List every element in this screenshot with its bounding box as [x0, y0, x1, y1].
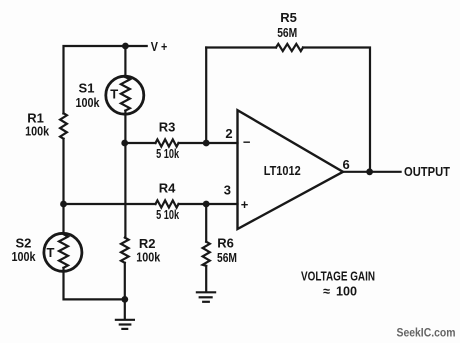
op-amp U1 LT1012 — [238, 110, 344, 229]
svg-text:2: 2 — [225, 126, 232, 141]
wire node B to R4 — [64, 203, 156, 205]
node R5 tap — [203, 140, 210, 147]
svg-text:R4: R4 — [159, 181, 176, 196]
node R6 tap — [203, 201, 210, 208]
node V+ junction — [122, 43, 129, 50]
svg-text:VOLTAGE GAIN: VOLTAGE GAIN — [301, 269, 375, 284]
node B junction — [60, 201, 67, 208]
svg-text:LT1012: LT1012 — [264, 163, 301, 178]
svg-text:R3: R3 — [159, 120, 176, 135]
svg-text:R6: R6 — [217, 236, 234, 251]
resistor R6 — [203, 242, 210, 266]
wire R5 left vertical — [205, 48, 207, 144]
node A junction — [121, 140, 128, 147]
svg-text:100k: 100k — [136, 249, 161, 264]
svg-text:56M: 56M — [217, 250, 237, 265]
svg-text:5 10k: 5 10k — [156, 146, 180, 161]
svg-text:V +: V + — [151, 39, 168, 54]
wire R2 bottom — [124, 263, 126, 300]
wire R6 ground stub — [205, 266, 207, 292]
svg-text:100k: 100k — [25, 124, 50, 139]
svg-text:5 10k: 5 10k — [156, 207, 180, 222]
wire ground stub — [124, 299, 126, 319]
svg-text:≈ 100: ≈ 100 — [323, 283, 357, 298]
resistor R2 — [121, 238, 129, 263]
ground G1 — [116, 320, 134, 329]
wire node A to R3 — [125, 142, 156, 144]
thermistor S2 — [44, 233, 82, 271]
svg-text:6: 6 — [343, 157, 350, 172]
svg-text:R5: R5 — [280, 10, 297, 25]
thermistor S1 — [106, 76, 144, 114]
node output junction — [366, 168, 373, 175]
resistor R3 — [156, 139, 179, 146]
resistor R1 — [60, 113, 67, 139]
svg-text:OUTPUT: OUTPUT — [404, 164, 450, 179]
svg-text:SeekIC.com: SeekIC.com — [397, 326, 456, 340]
svg-text:56M: 56M — [277, 25, 297, 40]
svg-text:100k: 100k — [76, 95, 101, 110]
svg-text:−: − — [243, 135, 251, 150]
svg-text:S1: S1 — [79, 81, 95, 96]
svg-text:3: 3 — [224, 182, 231, 197]
wire R6 top lead — [205, 204, 207, 242]
wire S1 bottom to node A — [124, 111, 126, 143]
wire S1 top lead — [124, 46, 126, 77]
wire R3 to pin 2 — [179, 142, 238, 144]
wire top V+ rail — [64, 46, 147, 114]
wire R5 top left — [206, 46, 276, 48]
svg-text:T: T — [110, 87, 118, 102]
resistor R4 — [156, 200, 179, 207]
node ground junction — [121, 296, 128, 303]
wire R5 top right and right vertical — [303, 48, 370, 172]
svg-text:+: + — [241, 197, 249, 212]
ground G2 — [197, 292, 215, 302]
wire node A to R2 — [124, 143, 126, 238]
wire left rail mid — [62, 139, 64, 234]
wire S2 bottom to ground node — [64, 268, 125, 300]
resistor R5 — [276, 44, 303, 51]
wire output — [343, 171, 401, 173]
svg-text:T: T — [47, 245, 55, 260]
wire R4 to pin 3 — [179, 203, 238, 205]
svg-text:100k: 100k — [12, 249, 37, 264]
